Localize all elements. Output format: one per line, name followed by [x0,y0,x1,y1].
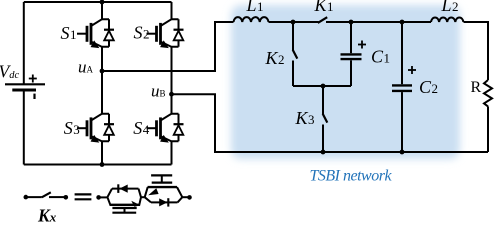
junction top rail [100,0,105,4]
wire R to bottom rail [487,106,489,152]
junction bottom rail [100,162,105,167]
plus sign C1 [358,41,366,49]
switch K3 [323,86,328,152]
wire battery bottom lead [23,90,25,165]
legend switch wire left [26,196,42,198]
legend IGBT pair input dot [96,195,101,200]
transistor S3 [77,114,114,142]
TSBI network highlight box [231,5,460,159]
junction C1 top node [349,20,354,25]
wire L1 to K1 [269,21,319,23]
legend switch terminal dot right [64,195,69,200]
capacitor C1 [341,22,362,86]
wire uA to TSBI top [102,22,234,71]
wire C2 node to L2 [402,21,431,23]
junction K3 top node [321,84,326,89]
legend output dot [187,195,192,200]
transistor S1 [77,19,114,47]
wire K1 to C2 node [326,21,402,23]
wire block1 to block2 [141,196,145,198]
svg-text:R: R [471,79,482,96]
junction C2 top node [400,20,405,25]
wire dot to block1 [99,196,108,198]
legend switch blade [42,192,51,197]
battery Vdc plate short [12,89,36,92]
transistor S4 [147,114,184,142]
node uB [169,92,174,97]
switch K2 [293,22,298,86]
svg-text:L1: L1 [246,0,264,15]
wire L2 to R [464,22,489,80]
inductor L1 [234,17,269,22]
wire leg1 bottom [101,141,103,164]
wire block2 out [182,196,188,198]
wire top rail [24,1,172,3]
battery Vdc plate long [5,83,45,85]
svg-text:K1: K1 [314,0,334,15]
svg-text:L2: L2 [441,0,459,15]
capacitor C2 [392,22,412,152]
wire leg2 bottom [171,141,173,164]
legend switch wire right [49,196,64,198]
junction C2 bottom [400,150,405,155]
wire bottom rail [24,164,172,166]
legend IGBT block1 [107,184,141,212]
wire leg1 top [101,2,103,19]
equals sign [75,194,92,199]
resistor R [484,80,492,106]
plus sign C2 [408,66,416,74]
inductor L2 [431,17,463,22]
switch K1 [318,17,327,23]
battery plus sign [29,75,37,83]
wire uB to TSBI bottom rail [172,94,489,152]
battery minus tick [33,94,35,99]
junction K3 bottom [321,150,326,155]
transistor S2 [147,19,184,47]
wire leg2 top [171,2,173,19]
wire K2-C1 connector [293,85,351,87]
junction L1/K2 node [291,20,296,25]
wire leg2 middle [171,47,173,114]
wire leg1 middle [101,47,103,114]
svg-text:TSBI network: TSBI network [310,168,393,185]
wire battery top lead [23,2,25,84]
legend switch Kx terminal dot left [24,195,29,200]
node uA [100,69,105,74]
legend IGBT block2 [145,175,183,206]
